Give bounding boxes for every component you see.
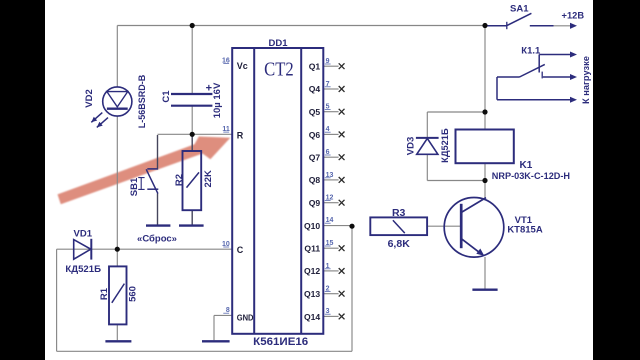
svg-text:L-56BSRD-B: L-56BSRD-B <box>137 74 147 128</box>
svg-text:R1: R1 <box>99 287 110 300</box>
svg-text:Q1: Q1 <box>309 62 321 72</box>
svg-text:Q6: Q6 <box>309 130 321 140</box>
svg-text:КД521Б: КД521Б <box>440 128 450 163</box>
svg-text:+12В: +12В <box>562 10 585 20</box>
svg-text:«Сброс»: «Сброс» <box>137 234 177 245</box>
svg-text:Q9: Q9 <box>309 198 321 208</box>
svg-text:SA1: SA1 <box>510 4 529 15</box>
svg-text:VD3: VD3 <box>405 137 416 155</box>
svg-text:10µ 16V: 10µ 16V <box>212 82 223 118</box>
svg-text:R3: R3 <box>392 207 406 219</box>
svg-text:6,8K: 6,8K <box>388 238 411 250</box>
svg-text:К нагрузке: К нагрузке <box>581 56 591 104</box>
svg-text:КД521Б: КД521Б <box>65 264 101 275</box>
svg-text:Q10: Q10 <box>304 221 320 231</box>
svg-text:Q5: Q5 <box>309 107 321 117</box>
svg-text:DD1: DD1 <box>268 38 288 49</box>
svg-text:К1.1: К1.1 <box>521 45 541 56</box>
svg-text:Q8: Q8 <box>309 175 321 185</box>
svg-text:SB1: SB1 <box>129 177 140 196</box>
svg-text:Q11: Q11 <box>304 244 320 254</box>
svg-text:VD1: VD1 <box>74 228 93 239</box>
svg-text:C1: C1 <box>161 90 172 103</box>
svg-text:Q12: Q12 <box>304 266 320 276</box>
svg-text:Q7: Q7 <box>309 153 321 163</box>
svg-text:22K: 22K <box>203 170 214 188</box>
svg-text:Q13: Q13 <box>304 289 320 299</box>
svg-text:KT815A: KT815A <box>507 225 543 236</box>
svg-text:Q14: Q14 <box>304 312 320 322</box>
svg-text:K1: K1 <box>520 160 533 171</box>
svg-text:R2: R2 <box>174 174 185 186</box>
svg-text:GND: GND <box>237 313 254 323</box>
svg-text:Vc: Vc <box>237 61 248 71</box>
svg-text:C: C <box>237 245 244 255</box>
svg-text:Q4: Q4 <box>309 84 321 94</box>
svg-text:CT2: CT2 <box>264 60 294 81</box>
svg-text:VD2: VD2 <box>84 89 95 107</box>
svg-text:560: 560 <box>128 286 139 302</box>
svg-text:К561ИЕ16: К561ИЕ16 <box>253 336 308 348</box>
svg-text:NRP-03K-C-12D-H: NRP-03K-C-12D-H <box>492 171 571 181</box>
svg-text:R: R <box>237 130 244 140</box>
